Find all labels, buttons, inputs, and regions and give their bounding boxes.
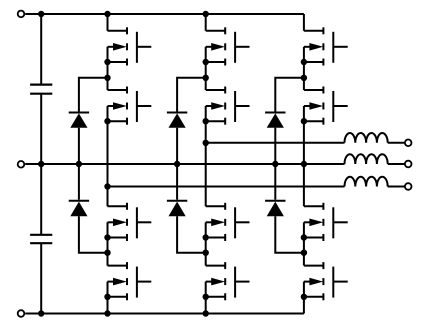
wire: Q11 source to lower clamp node — [303, 238, 305, 253]
wire: top DC+ bus — [25, 13, 304, 15]
wire: phase W line (leg 1 output) — [108, 186, 345, 188]
junction: Q10 source/body — [301, 118, 307, 124]
transistor Q5 (N-MOSFET) — [206, 27, 250, 65]
terminal: phase V output — [405, 161, 412, 168]
wire: L1 to phase U terminal — [388, 142, 405, 144]
wire: cap column upper lead — [40, 14, 42, 85]
node: leg 3 upper clamp point — [301, 75, 307, 81]
wire: neutral to lower cap — [40, 164, 42, 235]
wire: Q3 source to lower clamp node — [107, 238, 109, 253]
diode D2 (clamp, cathode up) — [69, 201, 89, 217]
junction: Q8 source/body — [203, 294, 209, 300]
junction: cap / top bus — [38, 11, 44, 17]
diode D6 (clamp, cathode up) — [265, 201, 285, 217]
node: leg 1 upper clamp point — [104, 75, 110, 81]
junction: Q2 source/body — [104, 118, 110, 124]
junction: Q11 source/body — [301, 234, 307, 240]
wire: upper clamp node to Q10 drain — [303, 78, 305, 90]
junction: Q6 source/body — [203, 118, 209, 124]
wire: neutral to D2 cathode — [78, 164, 80, 200]
capacitor C1 (upper DC-link) — [30, 85, 52, 94]
diode D5 (clamp, cathode up) — [265, 113, 285, 128]
wire: upper clamp node to Q2 drain — [107, 78, 109, 90]
wire: Q5 source to upper clamp node — [205, 62, 207, 78]
wire: D2 anode to lower clamp node — [79, 216, 108, 253]
wire: lower clamp node to Q12 drain — [303, 253, 305, 266]
wire: neutral mid bus / phase V output line — [25, 163, 344, 165]
transistor Q9 (N-MOSFET) — [304, 27, 348, 65]
junction: leg 2 / top bus — [203, 11, 209, 17]
wire: upper clamp node to D5 cathode — [275, 78, 304, 112]
junction: Q4 source/body — [104, 294, 110, 300]
junction: Q9 source/body — [301, 59, 307, 65]
wire: leg 2 DC+ feed to Q5 drain — [205, 14, 207, 31]
inductor L2 (phase V filter) — [345, 154, 388, 164]
node: leg 2 upper clamp point — [203, 75, 209, 81]
wire: cap column to neutral — [40, 94, 42, 164]
wire: upper clamp node to Q6 drain — [205, 78, 207, 90]
terminal: phase W output — [405, 183, 412, 190]
terminal: DC+ input — [18, 11, 25, 18]
wire: leg 2 output column — [205, 121, 207, 206]
transistor Q12 (N-MOSFET) — [304, 262, 348, 300]
wire: bottom DC- bus — [25, 313, 304, 315]
wire: phase U line (leg 2 output) — [206, 142, 345, 144]
terminal: phase U output — [405, 140, 412, 147]
wire: leg 3 DC+ feed to Q9 drain — [303, 14, 305, 31]
junction: Q5 source/body — [203, 59, 209, 65]
wire: Q7 source to lower clamp node — [205, 238, 207, 253]
wire: L3 to phase W terminal — [388, 186, 405, 188]
terminal: DC- input — [18, 310, 25, 317]
junction: Q1 source/body — [104, 59, 110, 65]
node: leg 1 lower clamp point — [104, 250, 110, 256]
wire: D6 anode to lower clamp node — [275, 216, 304, 253]
wire: upper clamp node to D1 cathode — [79, 78, 108, 112]
transistor Q7 (N-MOSFET) — [206, 203, 250, 241]
wire: cap column lower lead — [40, 243, 42, 313]
wire: lower clamp node to Q4 drain — [107, 253, 109, 266]
junction: D3 / neutral — [174, 161, 180, 167]
node: leg 2 lower clamp point — [203, 250, 209, 256]
junction: D1 / neutral — [76, 161, 82, 167]
junction: cap / bottom bus — [38, 310, 44, 316]
transistor Q11 (N-MOSFET) — [304, 203, 348, 241]
wire: Q8 source to bottom bus — [205, 297, 207, 314]
inductor L1 (phase U filter) — [345, 133, 388, 143]
wire: Q12 source to bottom bus — [303, 297, 305, 314]
node: leg 3 phase output tap — [301, 161, 307, 167]
transistor Q6 (N-MOSFET) — [206, 87, 250, 125]
junction: leg 1 / bottom bus — [104, 310, 110, 316]
junction: leg 2 / bottom bus — [203, 310, 209, 316]
diode D4 (clamp, cathode up) — [167, 201, 187, 217]
junction: Q3 source/body — [104, 234, 110, 240]
wire: neutral to D6 cathode — [274, 164, 276, 200]
transistor Q3 (N-MOSFET) — [108, 203, 152, 241]
diode D1 (clamp, cathode up) — [69, 113, 89, 128]
node: leg 1 phase output tap — [104, 183, 110, 189]
transistor Q10 (N-MOSFET) — [304, 87, 348, 125]
inductor L3 (phase W filter) — [345, 177, 388, 187]
terminal: DC neutral input — [18, 161, 25, 168]
wire: L2 to phase V terminal — [388, 163, 405, 165]
wire: Q1 source to upper clamp node — [107, 62, 109, 78]
wire: neutral to D4 cathode — [176, 164, 178, 200]
junction: cap / neutral — [38, 161, 44, 167]
transistor Q2 (N-MOSFET) — [108, 87, 152, 125]
wire: lower clamp node to Q8 drain — [205, 253, 207, 266]
junction: D5 / neutral — [272, 161, 278, 167]
junction: leg 1 / top bus — [104, 11, 110, 17]
wire: D5 anode to neutral — [274, 128, 276, 164]
node: leg 3 lower clamp point — [301, 250, 307, 256]
wire: Q9 source to upper clamp node — [303, 62, 305, 78]
junction: Q12 source/body — [301, 294, 307, 300]
wire: leg 1 output column — [107, 121, 109, 206]
transistor Q4 (N-MOSFET) — [108, 262, 152, 300]
junction: Q7 source/body — [203, 234, 209, 240]
wire: upper clamp node to D3 cathode — [177, 78, 206, 112]
wire: D4 anode to lower clamp node — [177, 216, 206, 253]
diode D3 (clamp, cathode up) — [167, 113, 187, 128]
node: leg 2 phase output tap — [203, 140, 209, 146]
wire: Q4 source to bottom bus — [107, 297, 109, 314]
transistor Q1 (N-MOSFET) — [108, 27, 152, 65]
wire: D3 anode to neutral — [176, 128, 178, 164]
wire: D1 anode to neutral — [78, 128, 80, 164]
transistor Q8 (N-MOSFET) — [206, 262, 250, 300]
wire: leg 1 DC+ feed to Q1 drain — [107, 14, 109, 31]
wire: leg 3 output column — [303, 121, 305, 206]
capacitor C2 (lower DC-link) — [30, 235, 52, 243]
